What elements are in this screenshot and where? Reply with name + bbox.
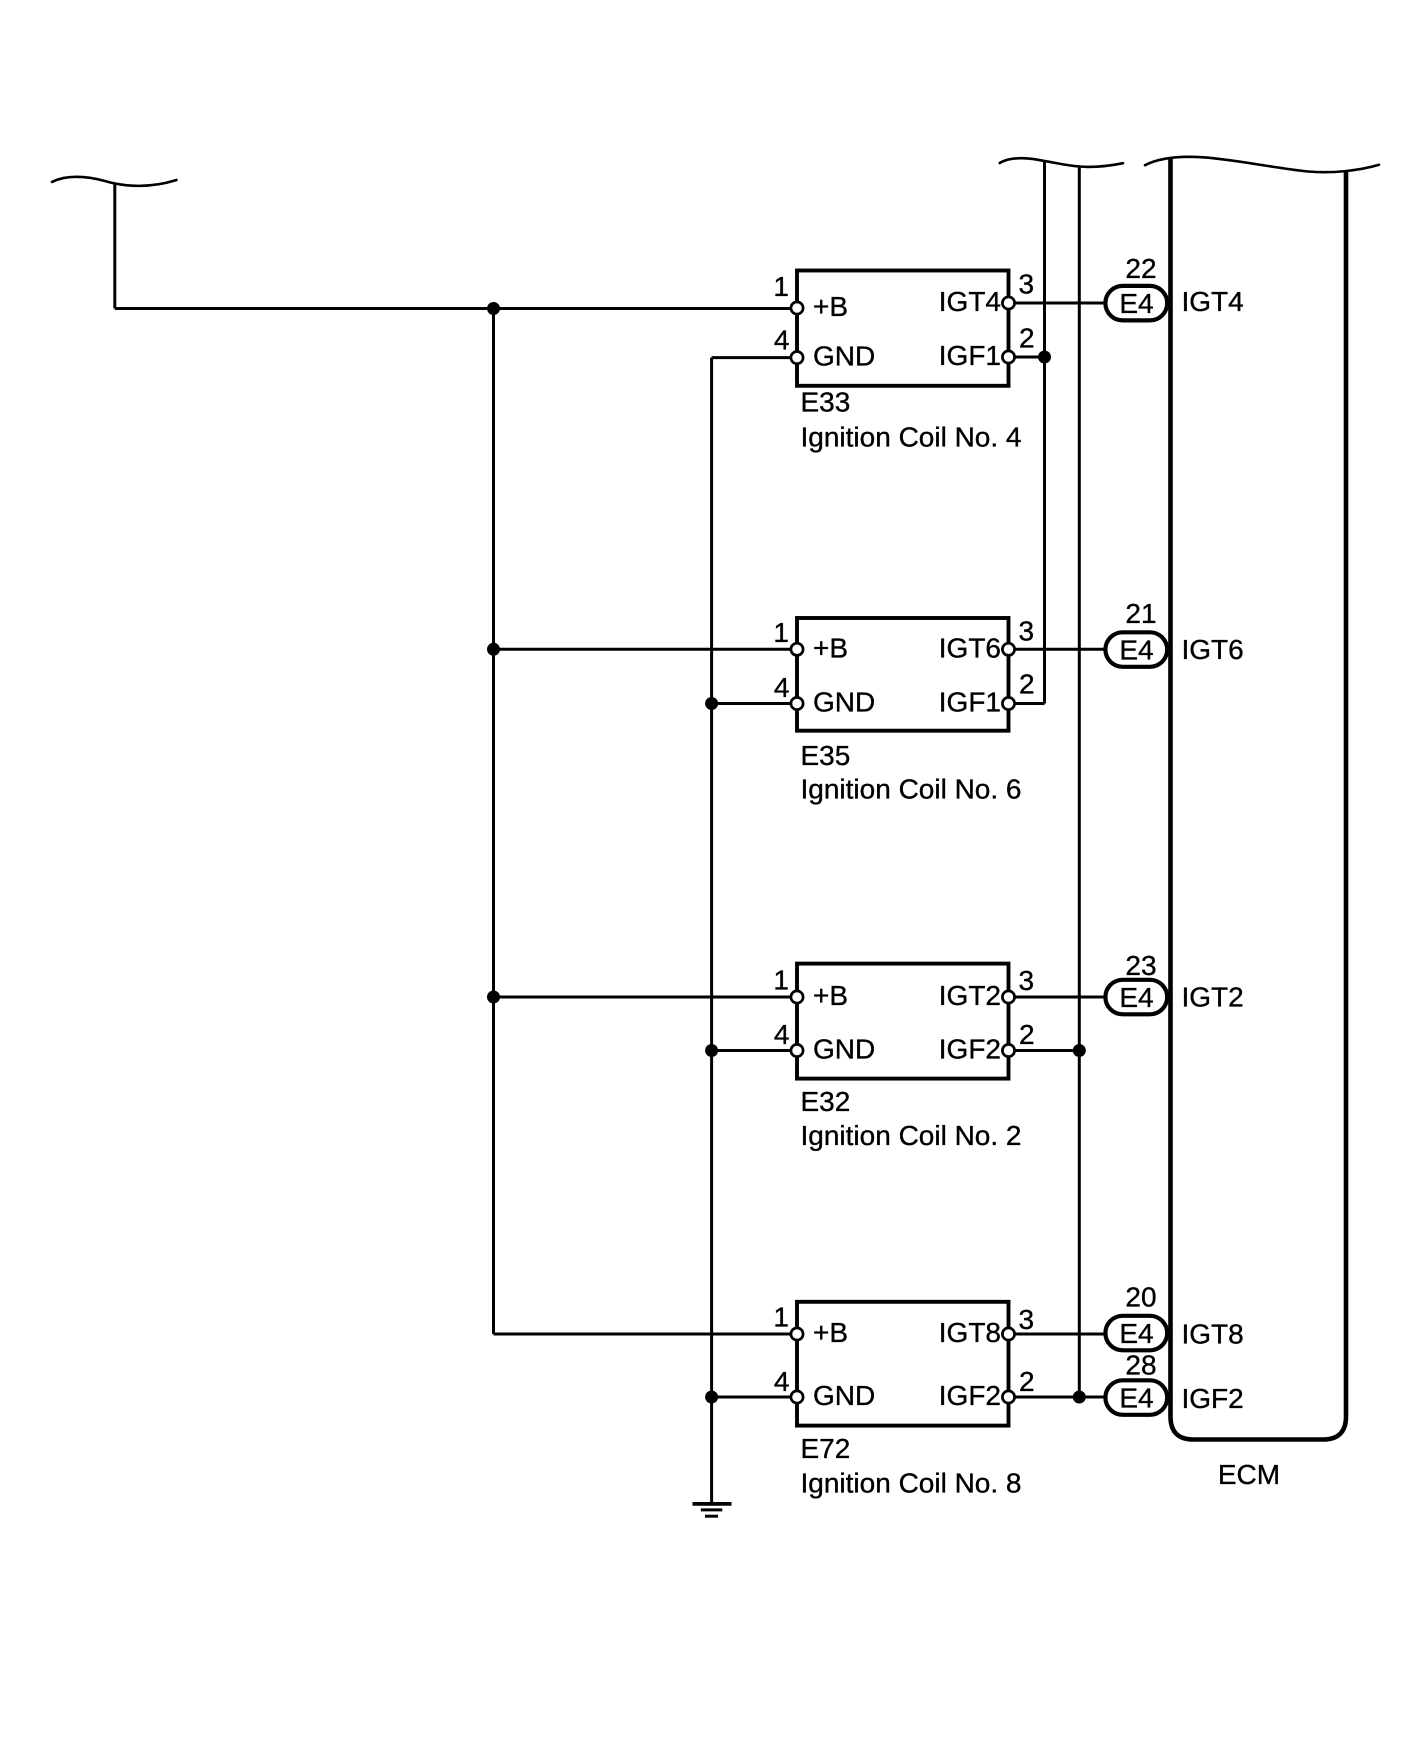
svg-text:IGF2: IGF2: [939, 1380, 1001, 1411]
svg-text:Ignition Coil No. 2: Ignition Coil No. 2: [801, 1120, 1022, 1151]
ground symbol: [693, 1504, 732, 1516]
wire vertical stub from break: [113, 184, 116, 309]
wire GND branch to E72 pin 4: [712, 1396, 795, 1399]
svg-text:IGT4: IGT4: [1182, 286, 1244, 317]
svg-text:GND: GND: [813, 1380, 875, 1411]
pin 1 of E72: [773, 1302, 803, 1341]
ECM block outline: [1171, 158, 1347, 1440]
svg-text:IGF2: IGF2: [1182, 1383, 1244, 1414]
node +B junction at E32 branch: [487, 991, 500, 1004]
svg-text:Ignition Coil No. 4: Ignition Coil No. 4: [801, 422, 1022, 453]
connector E4 pin 21 (IGT6): [1105, 598, 1167, 667]
wire +B branch to E32 pin 1: [494, 996, 796, 999]
node IGF2 junction at E32: [1073, 1044, 1086, 1057]
svg-text:2: 2: [1019, 323, 1035, 354]
pin 3 of E32: [1002, 965, 1034, 1003]
node +B junction at E35 branch: [487, 643, 500, 656]
wire break wavy (battery feed, top left): [52, 177, 177, 186]
svg-text:2: 2: [1019, 1019, 1035, 1050]
connector E4 pin 28 (IGF2): [1105, 1350, 1167, 1415]
svg-text:4: 4: [774, 325, 790, 356]
svg-text:IGT6: IGT6: [939, 632, 1001, 663]
svg-text:E4: E4: [1119, 635, 1153, 666]
svg-text:+B: +B: [813, 980, 848, 1011]
svg-text:21: 21: [1125, 598, 1156, 629]
svg-text:E35: E35: [801, 740, 851, 771]
wire IGF1 branch from E33 pin 2: [1010, 356, 1045, 359]
svg-text:IGT4: IGT4: [939, 286, 1001, 317]
svg-text:22: 22: [1125, 253, 1156, 284]
svg-text:+B: +B: [813, 632, 848, 663]
connector E4 pin 22 (IGT4): [1105, 253, 1167, 320]
svg-text:IGT8: IGT8: [1182, 1319, 1244, 1350]
svg-text:IGT2: IGT2: [939, 980, 1001, 1011]
node IGF1 junction: [1038, 351, 1051, 364]
svg-text:GND: GND: [813, 687, 875, 718]
wire IGF2 branch from E32 pin 2: [1010, 1049, 1079, 1052]
pin 3 of E33: [1002, 269, 1034, 310]
svg-text:GND: GND: [813, 341, 875, 372]
svg-text:1: 1: [773, 617, 789, 648]
pin 2 of E33: [1002, 323, 1034, 364]
wire GND bus vertical: [710, 358, 713, 1504]
svg-text:+B: +B: [813, 1317, 848, 1348]
wire IGT2 from E32 pin 3 to ECM: [1010, 996, 1104, 999]
pin 1 of E35: [773, 617, 803, 656]
wire GND branch to E32 pin 4: [712, 1049, 795, 1052]
pin 3 of E72: [1002, 1304, 1034, 1340]
pin 2 of E35: [1002, 668, 1034, 709]
svg-text:2: 2: [1019, 668, 1035, 699]
pin 2 of E32: [1002, 1019, 1034, 1057]
wire IGF1 elbow to E35 pin 2: [1010, 702, 1045, 705]
wire IGF2 bus vertical: [1078, 167, 1081, 1397]
pin 4 of E72: [774, 1366, 803, 1403]
wire +B feed horizontal to E33 pin 1: [115, 307, 795, 310]
node +B junction at E33 feed: [487, 302, 500, 315]
svg-text:28: 28: [1125, 1350, 1156, 1381]
svg-text:4: 4: [774, 672, 790, 703]
svg-text:1: 1: [773, 1302, 789, 1333]
svg-text:2: 2: [1019, 1366, 1035, 1397]
wire +B bus vertical: [492, 309, 495, 1335]
svg-text:IGF2: IGF2: [939, 1034, 1001, 1065]
wire GND from E33 pin 4 to bus: [712, 356, 795, 359]
svg-text:23: 23: [1125, 950, 1156, 981]
pin 1 of E32: [773, 965, 803, 1004]
svg-text:ECM: ECM: [1218, 1459, 1280, 1490]
svg-text:E4: E4: [1119, 982, 1153, 1013]
svg-text:IGT2: IGT2: [1182, 981, 1244, 1012]
svg-text:4: 4: [774, 1019, 790, 1050]
pin 4 of E33: [774, 325, 803, 364]
svg-text:E4: E4: [1119, 1318, 1153, 1349]
svg-text:3: 3: [1019, 965, 1035, 996]
svg-text:Ignition Coil No. 6: Ignition Coil No. 6: [801, 774, 1022, 805]
svg-text:IGF1: IGF1: [939, 340, 1001, 371]
ignition coil E33 (No. 4): [797, 271, 1009, 386]
svg-text:IGT8: IGT8: [939, 1317, 1001, 1348]
svg-text:E33: E33: [801, 387, 851, 418]
ignition coil E32 (No. 2): [797, 964, 1009, 1079]
pin 1 of E33: [773, 271, 803, 314]
wire IGT6 from E35 pin 3 to ECM: [1010, 648, 1104, 651]
svg-text:+B: +B: [813, 291, 848, 322]
wire IGF1 bus vertical: [1043, 160, 1046, 704]
connector E4 pin 20 (IGT8): [1105, 1282, 1167, 1351]
wire +B branch to E72 pin 1: [494, 1333, 796, 1336]
svg-text:1: 1: [773, 965, 789, 996]
svg-text:E4: E4: [1119, 1383, 1153, 1414]
wire break wavy over IGF bus wires: [1000, 158, 1123, 167]
ignition coil E72 (No. 8): [797, 1302, 1009, 1426]
connector E4 pin 23 (IGT2): [1105, 950, 1167, 1014]
svg-text:20: 20: [1125, 1282, 1156, 1313]
node IGF2 junction at E72: [1073, 1391, 1086, 1404]
node GND junction at E35 branch: [705, 697, 718, 710]
svg-text:4: 4: [774, 1366, 790, 1397]
svg-text:Ignition Coil No. 8: Ignition Coil No. 8: [801, 1467, 1022, 1498]
pin 2 of E72: [1002, 1366, 1034, 1403]
node GND junction at E72 branch: [705, 1391, 718, 1404]
svg-text:IGT6: IGT6: [1182, 634, 1244, 665]
wire IGT4 from E33 pin 3 to ECM: [1010, 302, 1104, 305]
svg-text:3: 3: [1019, 1304, 1035, 1335]
svg-text:IGF1: IGF1: [939, 687, 1001, 718]
wire IGT8 from E72 pin 3 to ECM: [1010, 1333, 1104, 1336]
wire GND branch to E35 pin 4: [712, 702, 795, 705]
ignition coil E35 (No. 6): [797, 618, 1009, 731]
svg-text:1: 1: [773, 271, 789, 302]
wire break wavy over ECM: [1145, 157, 1379, 172]
svg-text:3: 3: [1019, 615, 1035, 646]
node GND junction at E32 branch: [705, 1044, 718, 1057]
pin 4 of E32: [774, 1019, 803, 1057]
pin 3 of E35: [1002, 615, 1034, 655]
svg-text:3: 3: [1019, 269, 1035, 300]
wire +B branch to E35 pin 1: [494, 648, 796, 651]
pin 4 of E35: [774, 672, 803, 710]
svg-text:E4: E4: [1119, 288, 1153, 319]
svg-text:GND: GND: [813, 1034, 875, 1065]
svg-text:E72: E72: [801, 1433, 851, 1464]
svg-text:E32: E32: [801, 1086, 851, 1117]
wire IGF2 from E72 pin 2 to ECM: [1010, 1396, 1104, 1399]
